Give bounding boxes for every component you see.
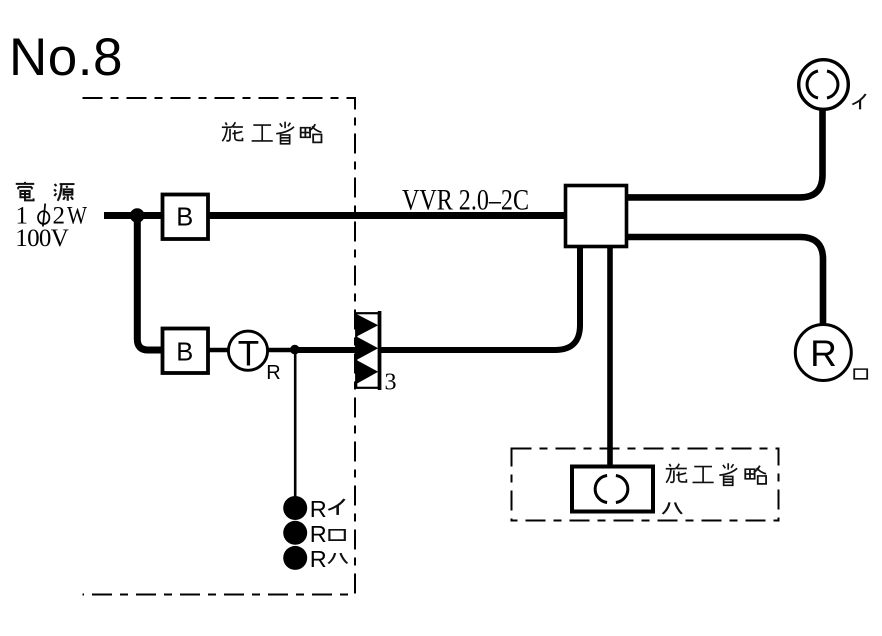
wire: transformer T to junction B (268, 348, 297, 353)
svg-text:R: R (310, 521, 327, 547)
remote switch Rハ (283, 546, 307, 570)
lamp receptacle R ロ (795, 325, 851, 381)
junction dot A (130, 208, 145, 223)
svg-text:3: 3 (385, 370, 397, 396)
dash-dot boundary box right (施工省略 region) (512, 449, 779, 521)
label ハ (663, 502, 682, 513)
svg-text:R: R (310, 546, 327, 572)
wire: junction A down and to breaker B2 (137, 216, 162, 351)
wire: joint box to ceiling rosette イ (628, 110, 823, 197)
svg-text:R: R (810, 333, 837, 374)
remote-control relay x3 (356, 311, 379, 390)
label 施工省略 (right) (666, 463, 766, 485)
remote switch Rイ (283, 496, 307, 520)
junction dot B (290, 345, 300, 355)
wire: switch drop line (294, 350, 297, 500)
remote switch Rロ (283, 521, 307, 545)
svg-text:T: T (238, 335, 259, 374)
wire: power feed to junction A (104, 212, 140, 219)
wire: breaker B2 to transformer T (208, 348, 230, 353)
breaker B1 (163, 195, 209, 240)
svg-text:No.8: No.8 (9, 28, 123, 87)
dash-dot boundary box left (施工省略 region) (83, 98, 356, 595)
label ロ (854, 369, 867, 379)
wire: main line junction A to joint box (137, 212, 565, 219)
svg-text:B: B (176, 338, 193, 366)
breaker B2 (163, 329, 209, 374)
svg-text:R: R (310, 496, 327, 522)
joint box (566, 186, 627, 247)
label 電 源 1φ2W 100V (power source) (16, 182, 75, 201)
label 施工省略 (left) (222, 122, 322, 144)
svg-text:100V: 100V (15, 225, 68, 252)
svg-text:R: R (266, 362, 280, 384)
wire: junction B to relay (294, 347, 357, 353)
wire: joint box to receptacle ロ (628, 237, 823, 325)
ceiling rosette ハ (square) (572, 467, 653, 512)
svg-text:B: B (176, 204, 193, 232)
wire: relay to joint box (up through x580) (381, 248, 580, 350)
ceiling rosette イ (round) (799, 60, 849, 110)
wire: joint box down to rosette ハ (607, 248, 613, 466)
svg-text:VVR 2.0–2C: VVR 2.0–2C (402, 184, 529, 217)
label イ (852, 94, 865, 109)
remote-control transformer T(R) (228, 331, 280, 384)
